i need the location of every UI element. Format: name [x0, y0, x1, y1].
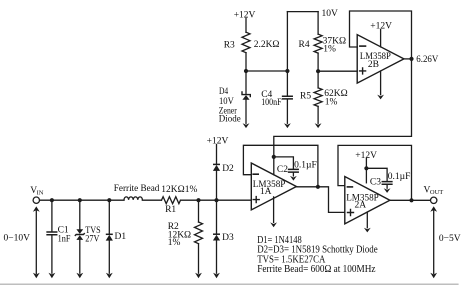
svg-text:1%: 1%	[325, 98, 338, 108]
svg-text:1%: 1%	[168, 238, 181, 248]
ground arrow C4	[284, 123, 291, 128]
resistor R2	[195, 222, 203, 244]
range arrow VIN up head	[33, 206, 40, 211]
wire TVS top stub	[79, 200, 81, 229]
capacitor C2	[289, 169, 299, 172]
wire 2A V+ supply	[365, 159, 367, 183]
wire D4 to ground	[245, 100, 247, 124]
junction node TVS tap	[78, 198, 82, 202]
svg-text:0.1µF: 0.1µF	[294, 161, 317, 171]
junction node 2B output 6.26V	[409, 57, 413, 61]
junction node D2/D3 tap	[214, 198, 218, 202]
ground arrow TVS	[76, 273, 83, 278]
wire 2A output to VOUT	[390, 199, 431, 201]
wire C2 to ground	[292, 173, 294, 176]
pin minus marker 2B	[360, 45, 366, 47]
wire D2 to main rail	[216, 171, 218, 200]
wire 2B feedback loop	[350, 11, 412, 59]
terminal VOUT circle	[431, 197, 437, 203]
ground arrow 1A	[270, 222, 277, 227]
junction node R2 tap	[196, 198, 200, 202]
capacitor C1	[47, 232, 57, 235]
resistor R5	[314, 88, 322, 107]
ground arrow C2	[290, 176, 297, 181]
wire C4 to ground	[286, 100, 288, 124]
ground arrow R2	[195, 273, 202, 278]
svg-text:+12V: +12V	[355, 151, 377, 161]
wire R3 bottom to 10V node	[245, 53, 247, 71]
diode D1 symbol	[106, 233, 113, 235]
range arrow VOUT down head	[430, 273, 437, 278]
wire 10V top rail	[287, 11, 318, 13]
svg-text:Ferrite Bead= 600Ω at 100MHz: Ferrite Bead= 600Ω at 100MHz	[257, 264, 376, 275]
svg-text:C2: C2	[277, 165, 288, 175]
wire R4 bottom to divider node	[317, 53, 319, 71]
svg-text:100nF: 100nF	[261, 98, 281, 108]
pin plus marker 2B	[360, 68, 366, 74]
op-amp U2B triangle	[357, 35, 404, 84]
svg-text:C3: C3	[370, 177, 381, 187]
wire TVS to ground	[79, 240, 81, 273]
svg-text:27V: 27V	[85, 234, 99, 244]
ground arrow 2A	[364, 228, 371, 233]
svg-text:10V: 10V	[219, 96, 234, 106]
svg-text:0−5V: 0−5V	[439, 234, 461, 244]
ground arrow C1	[49, 273, 56, 278]
pin minus marker 2A	[347, 186, 352, 188]
ground arrow R5	[315, 123, 322, 128]
wire node B to R5	[317, 71, 319, 88]
svg-text:1%: 1%	[323, 45, 336, 55]
terminal VIN circle	[33, 197, 39, 203]
junction node divider R4/R5	[316, 69, 320, 73]
junction node 10V at C4	[285, 69, 289, 73]
svg-text:2.2KΩ: 2.2KΩ	[254, 40, 280, 50]
wire D4 anode stub	[245, 71, 247, 94]
range arrow VIN down head	[33, 273, 40, 278]
wire 2A V- to ground	[366, 212, 368, 228]
svg-text:+12V: +12V	[234, 10, 256, 20]
op-amp U2A triangle	[345, 177, 390, 224]
junction node C1 tap	[50, 198, 54, 202]
svg-text:0−10V: 0−10V	[4, 233, 31, 243]
wire +12V clamp rail to D2	[216, 145, 218, 165]
svg-text:D4: D4	[219, 86, 229, 96]
wire main rail to D3	[216, 200, 218, 234]
svg-text:0.1µF: 0.1µF	[388, 172, 411, 182]
junction node 2A V+ / C3	[364, 166, 368, 170]
svg-text:R5: R5	[300, 92, 311, 102]
wire R5 to ground	[317, 106, 319, 123]
ground arrow D4	[243, 123, 250, 128]
wire D3 to ground	[216, 240, 218, 273]
diode D3 symbol	[213, 233, 220, 235]
ground arrow 2B	[377, 95, 384, 100]
wire VOUT range arrow shaft	[433, 211, 435, 274]
wire C3 to ground	[386, 185, 388, 188]
svg-text:Ferrite Bead: Ferrite Bead	[114, 184, 160, 194]
wire R4 top stub	[317, 12, 319, 34]
junction node D1 tap	[107, 198, 111, 202]
wire 1A output to 2A plus input	[296, 187, 344, 213]
zener diode D4 symbol	[242, 91, 250, 97]
wire 6.26V node down right side	[274, 59, 412, 175]
resistor R3	[242, 32, 250, 53]
wire node A (10V node horizontal)	[246, 70, 287, 72]
wire 2B V- to ground	[380, 71, 382, 95]
wire +12V stub to R3	[245, 18, 247, 32]
wire 1A feedback loop	[243, 145, 318, 187]
range arrow VOUT up head	[430, 206, 437, 211]
wire main input rail	[40, 199, 124, 201]
svg-text:6.26V: 6.26V	[416, 55, 438, 65]
diode D2 symbol	[213, 163, 220, 165]
wire VIN range arrow shaft	[35, 211, 37, 274]
wire 2B V+ supply	[380, 29, 382, 47]
junction node 10V at R3/D4	[244, 69, 248, 73]
wire C4 riser to top rail	[286, 12, 288, 96]
capacitor C4	[283, 96, 293, 99]
wire 2A feedback loop	[338, 145, 412, 200]
svg-text:OUT: OUT	[430, 189, 443, 196]
wire R2 to ground	[198, 244, 200, 274]
ground arrow C3	[384, 188, 391, 193]
svg-text:IN: IN	[37, 190, 44, 197]
svg-text:R4: R4	[299, 40, 310, 50]
wire R2 top stub	[198, 200, 200, 222]
svg-text:D3: D3	[222, 233, 234, 243]
capacitor C3	[382, 182, 392, 185]
wire D1 to ground	[108, 240, 110, 273]
resistor R1	[162, 197, 181, 204]
svg-text:R1: R1	[165, 205, 176, 215]
resistor R4	[314, 34, 322, 53]
svg-text:+12V: +12V	[370, 21, 392, 31]
wire node B to op-amp 2B plus input	[318, 70, 357, 72]
svg-text:10V: 10V	[322, 9, 339, 19]
svg-text:2A: 2A	[355, 201, 367, 211]
ground arrow D1	[106, 273, 113, 278]
wire C1 top stub	[51, 200, 53, 231]
pin plus marker 2A	[348, 210, 354, 216]
svg-text:1A: 1A	[260, 187, 272, 197]
svg-text:12KΩ1%: 12KΩ1%	[161, 185, 197, 195]
svg-text:2B: 2B	[368, 60, 379, 70]
op-amp U1A triangle	[251, 163, 296, 210]
wire C1 to ground	[51, 235, 53, 273]
ferrite bead FB1	[124, 197, 142, 200]
ground arrow D3	[213, 273, 220, 278]
svg-text:D2: D2	[222, 164, 234, 174]
wire C2 branch	[274, 157, 294, 169]
wire 1A V- to ground	[273, 197, 275, 223]
junction node 2A output	[409, 198, 413, 202]
wire D1 top stub	[108, 200, 110, 234]
junction node 1A output	[316, 185, 320, 189]
svg-text:+12V: +12V	[207, 136, 229, 146]
wire R1 to op-amp 1A plus input	[181, 199, 252, 201]
svg-text:R3: R3	[224, 41, 235, 51]
ground reference rule at page bottom	[0, 283, 458, 285]
wire C3 branch	[366, 168, 387, 181]
svg-text:Diode: Diode	[219, 114, 241, 124]
svg-text:D1: D1	[115, 232, 127, 242]
svg-text:1nF: 1nF	[58, 235, 71, 245]
wire 2B output	[404, 58, 412, 60]
junction node 1A V+ / C2	[272, 155, 276, 159]
pin plus marker 1A	[253, 197, 259, 203]
TVS symbol	[76, 229, 83, 234]
wire bead to R1	[142, 199, 161, 201]
pin minus marker 1A	[253, 173, 258, 175]
